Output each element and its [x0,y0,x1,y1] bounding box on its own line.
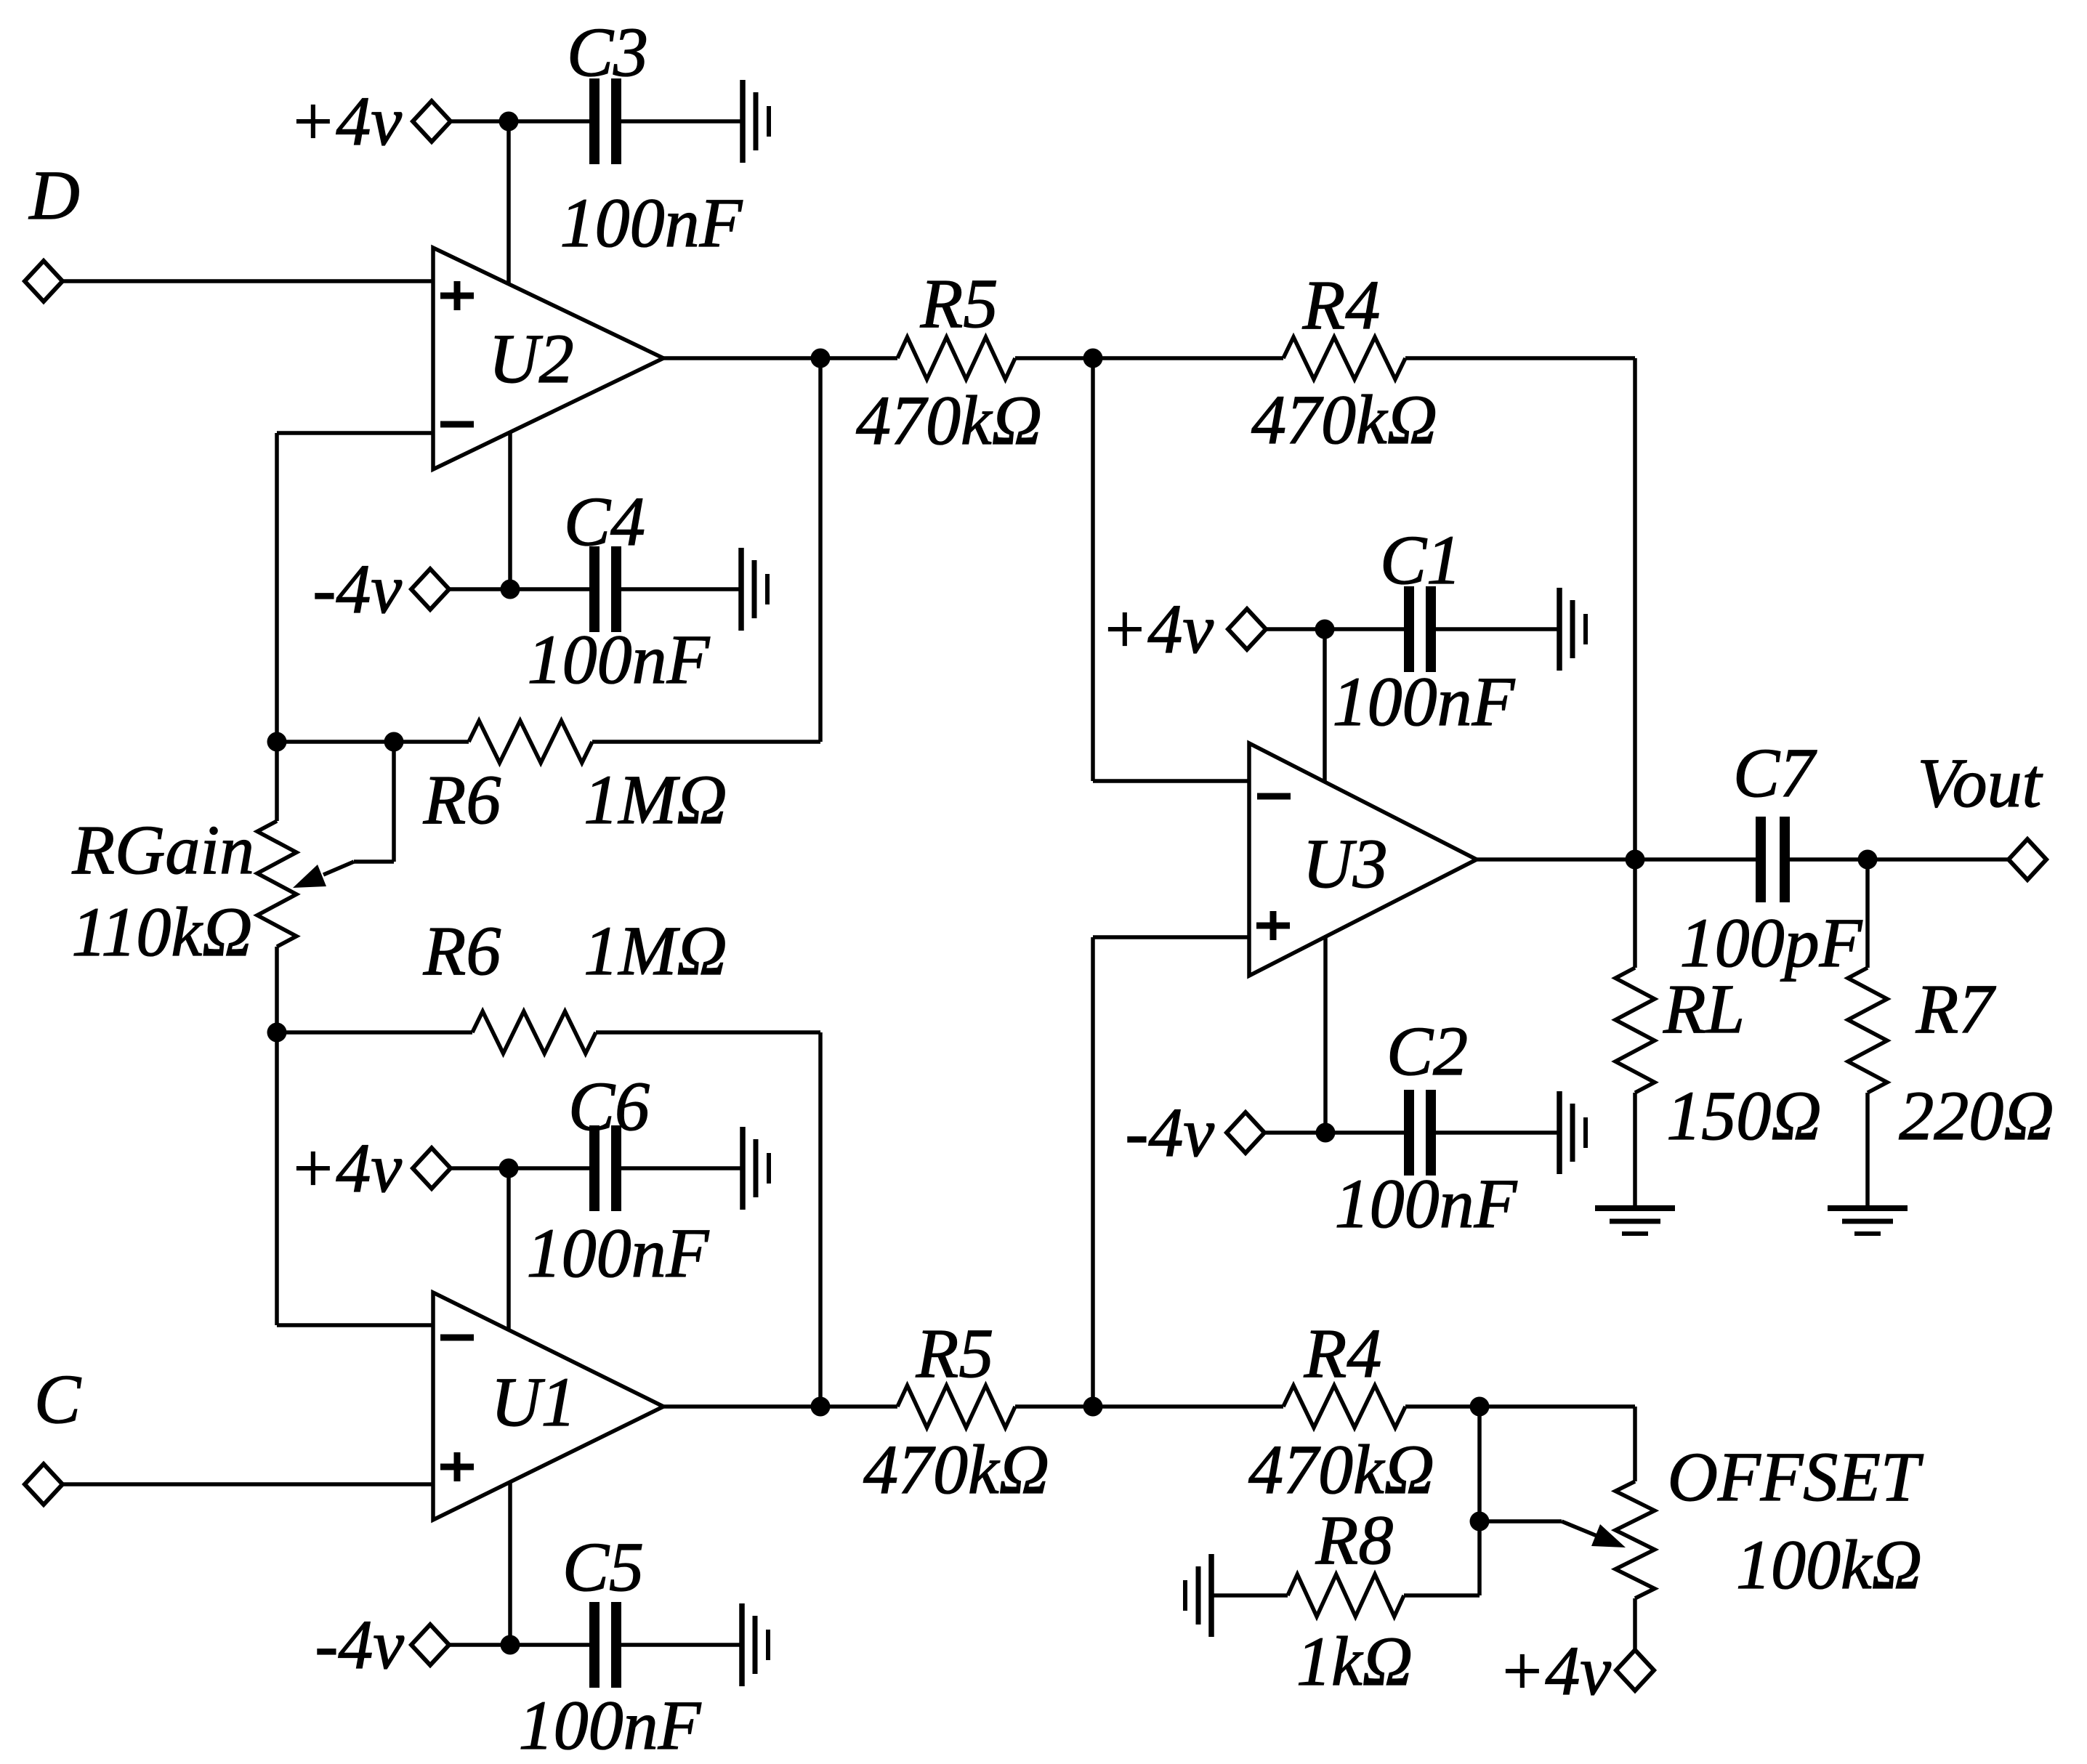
svg-text:-4v: -4v [1125,1093,1214,1171]
svg-text:U2: U2 [488,320,573,397]
svg-text:OFFSET: OFFSET [1668,1438,1924,1516]
svg-text:+4v: +4v [289,1129,403,1207]
svg-text:R5: R5 [920,264,998,342]
svg-text:+4v: +4v [289,82,403,160]
svg-text:R8: R8 [1315,1501,1394,1579]
svg-text:+4v: +4v [1101,590,1214,668]
svg-text:-4v: -4v [315,1606,404,1683]
svg-text:100nF: 100nF [1335,1165,1518,1242]
svg-text:R6: R6 [423,761,501,838]
svg-text:100nF: 100nF [528,620,711,698]
svg-text:R6: R6 [423,912,501,990]
svg-text:470kΩ: 470kΩ [1251,381,1437,458]
svg-text:C: C [34,1360,81,1438]
svg-text:C5: C5 [562,1528,644,1606]
svg-text:C4: C4 [564,482,645,560]
svg-text:470kΩ: 470kΩ [863,1431,1049,1508]
svg-text:R7: R7 [1916,970,1997,1048]
svg-text:100kΩ: 100kΩ [1736,1526,1922,1603]
svg-text:-4v: -4v [312,550,402,628]
svg-text:C2: C2 [1386,1012,1468,1090]
svg-text:1kΩ: 1kΩ [1296,1622,1413,1700]
svg-text:150Ω: 150Ω [1666,1077,1821,1154]
svg-text:RGain: RGain [71,811,254,889]
svg-text:C7: C7 [1733,734,1817,812]
svg-text:R4: R4 [1304,1314,1382,1392]
svg-text:470kΩ: 470kΩ [1248,1431,1434,1508]
svg-text:1MΩ: 1MΩ [584,912,727,990]
svg-text:100nF: 100nF [1333,663,1516,740]
svg-text:100nF: 100nF [527,1214,710,1292]
svg-text:470kΩ: 470kΩ [856,381,1042,459]
svg-text:C6: C6 [568,1067,650,1145]
svg-text:RL: RL [1663,970,1745,1048]
svg-text:+4v: +4v [1498,1632,1612,1710]
svg-text:1MΩ: 1MΩ [584,761,727,838]
svg-text:220Ω: 220Ω [1899,1077,2054,1154]
svg-text:100nF: 100nF [519,1686,702,1764]
svg-text:D: D [28,156,79,234]
svg-text:Vout: Vout [1918,744,2043,822]
svg-text:110kΩ: 110kΩ [72,893,253,971]
svg-text:U3: U3 [1302,825,1387,902]
svg-text:R5: R5 [916,1314,994,1392]
svg-text:C3: C3 [567,13,648,91]
svg-text:U1: U1 [491,1363,576,1441]
svg-text:100nF: 100nF [560,184,743,262]
svg-text:C1: C1 [1380,521,1461,599]
svg-text:R4: R4 [1302,266,1381,344]
